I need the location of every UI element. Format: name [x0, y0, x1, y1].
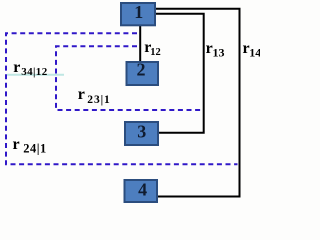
svg-text:2: 2 [137, 60, 146, 80]
svg-text:12: 12 [150, 47, 161, 58]
svg-text:34|12: 34|12 [21, 66, 48, 78]
svg-text:r: r [13, 59, 20, 76]
svg-text:24|1: 24|1 [23, 142, 47, 156]
svg-text:14: 14 [249, 46, 260, 60]
svg-text:1: 1 [134, 2, 143, 22]
svg-text:r: r [13, 136, 20, 153]
svg-text:4: 4 [138, 179, 147, 199]
svg-text:3: 3 [137, 121, 146, 141]
svg-text:r: r [78, 86, 85, 103]
svg-text:23|1: 23|1 [87, 94, 110, 106]
svg-text:13: 13 [213, 46, 225, 60]
